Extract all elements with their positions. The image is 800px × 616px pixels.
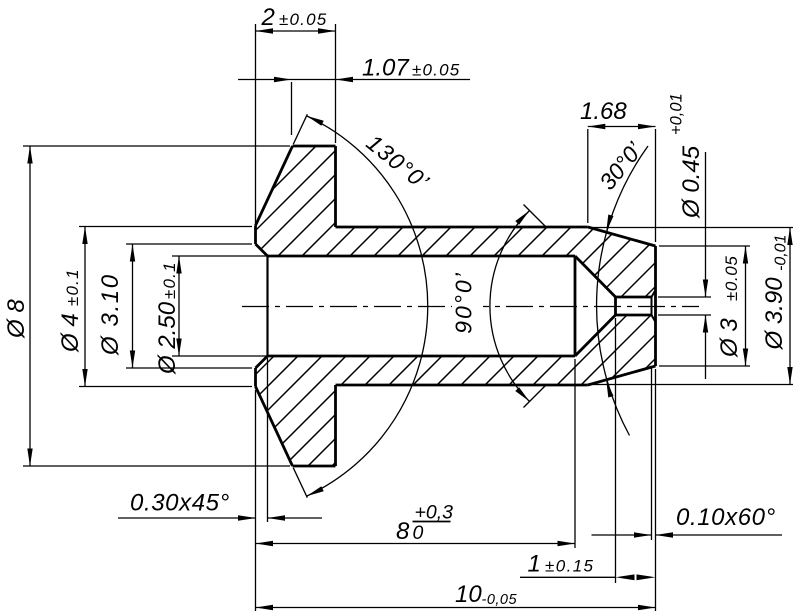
svg-text:10: 10 <box>455 581 482 608</box>
dimension 1.07 +/-0.05 (flange cylindrical band) <box>238 55 470 136</box>
dimension dia 3 +/-0.05 (cone end diameter) <box>659 246 750 366</box>
dimension dia 8 (flange diameter) <box>3 146 290 466</box>
flange top surface <box>293 145 336 148</box>
body top surface <box>336 226 588 229</box>
angular dimension 90 deg (internal cone angle) <box>451 205 548 408</box>
exit chamfer 0.10x60 (top) <box>652 290 656 297</box>
chamfer edge circle at bore entry <box>266 256 268 356</box>
svg-text:±0.05: ±0.05 <box>722 256 741 301</box>
svg-text:±0.05: ±0.05 <box>279 10 327 29</box>
dimension dia 3.90 -0,01 (body diameter at cone) <box>591 228 793 385</box>
svg-text:±0.1: ±0.1 <box>63 268 82 306</box>
small hole wall (top) <box>616 296 652 299</box>
flange right face (top) <box>334 146 337 227</box>
left end face (bottom segment) <box>254 368 257 387</box>
svg-text:Ø 0.45: Ø 0.45 <box>678 145 705 219</box>
svg-text:2: 2 <box>261 4 275 31</box>
dimension 0.10x60 (exit chamfer) <box>592 368 783 540</box>
entry chamfer 0.30x45 (bottom) <box>256 356 268 368</box>
svg-text:Ø 3.10: Ø 3.10 <box>97 273 124 356</box>
svg-text:90°0’: 90°0’ <box>451 271 477 334</box>
svg-text:Ø 2.50: Ø 2.50 <box>154 301 181 375</box>
dimension 10 -0,05 (overall length) <box>256 369 656 611</box>
internal 90-deg cone (bottom) <box>575 315 616 356</box>
svg-text:-0,01: -0,01 <box>773 235 790 271</box>
dimension 0.30x45 (entry chamfer) <box>118 358 322 522</box>
svg-text:0.10x60°: 0.10x60° <box>676 504 776 531</box>
small hole wall (bottom) <box>616 314 652 317</box>
cone-to-hole edge circle <box>614 297 617 315</box>
bore wall (bottom) <box>268 355 576 358</box>
body bottom surface <box>336 384 588 387</box>
svg-text:Ø 3: Ø 3 <box>716 318 743 358</box>
left end face (top segment) <box>254 226 257 245</box>
internal 90-deg cone (top) <box>575 256 616 297</box>
bore wall (top) <box>268 255 576 258</box>
svg-text:Ø 4: Ø 4 <box>57 313 84 353</box>
bore end edge circle <box>574 256 577 356</box>
svg-text:+0,3: +0,3 <box>415 502 454 524</box>
svg-text:±0.1: ±0.1 <box>160 261 179 299</box>
outer cone surface (top) <box>588 227 656 246</box>
dimension 1.68 (outer cone length) <box>580 98 656 242</box>
dimension 2 +/-0.05 (flange thickness) <box>256 4 336 224</box>
right end face <box>654 246 657 366</box>
svg-text:0: 0 <box>413 522 424 544</box>
flange conical back surface (bottom) <box>256 387 293 467</box>
svg-text:±0.15: ±0.15 <box>545 557 594 576</box>
dimension 8 +0,3/0 (bore depth) <box>256 359 576 548</box>
dimension dia 2.50 +/-0.1 (bore diameter) <box>154 256 266 375</box>
svg-text:0.30x45°: 0.30x45° <box>130 490 230 517</box>
flange bottom surface <box>293 465 336 468</box>
svg-text:1: 1 <box>528 551 541 578</box>
exit chamfer edge circle <box>651 297 653 315</box>
svg-text:1.68: 1.68 <box>580 98 627 125</box>
entry chamfer 0.30x45 (top) <box>256 244 268 256</box>
dimension dia 0.45 +0,01 (small hole) <box>658 93 711 379</box>
angular dimension 130 deg (flange cone angle) <box>293 114 434 497</box>
flange right face (bottom) <box>334 385 337 466</box>
svg-text:-0,05: -0,05 <box>482 592 518 608</box>
dimension dia 4 +/-0.1 (body diameter) <box>57 227 252 387</box>
flange conical back surface (top) <box>256 146 293 226</box>
exit chamfer 0.10x60 (bottom) <box>652 315 656 322</box>
svg-text:±0.05: ±0.05 <box>412 61 460 80</box>
svg-text:1.07: 1.07 <box>362 55 410 82</box>
svg-text:Ø 3.90: Ø 3.90 <box>761 277 788 351</box>
outer cone surface (bottom) <box>588 366 656 385</box>
svg-text:+0,01: +0,01 <box>668 93 686 135</box>
svg-text:8: 8 <box>396 518 410 545</box>
angular dimension 30 deg (outer cone angle) <box>594 137 648 436</box>
dimension 1 +/-0.15 (small hole length) <box>520 318 656 583</box>
section hatching (45-degree) <box>0 96 800 516</box>
dimension dia 3.10 (entry chamfer diameter) <box>97 244 252 368</box>
centerline (part axis) <box>242 306 699 308</box>
svg-text:Ø 8: Ø 8 <box>3 299 30 339</box>
